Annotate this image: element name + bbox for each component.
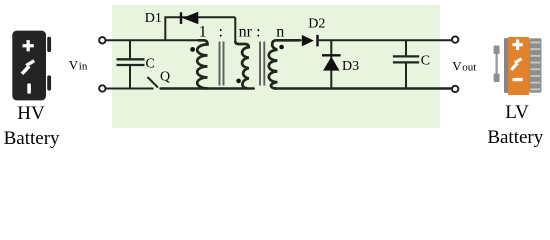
- HV battery terminal tab top: [47, 37, 51, 52]
- diode D1: [181, 12, 198, 24]
- transformer primary winding 1: [197, 40, 207, 88]
- LV battery body: [508, 37, 529, 95]
- svg-text:D2: D2: [308, 17, 325, 32]
- switch Q blade: [148, 77, 159, 88]
- svg-text:C: C: [146, 56, 155, 71]
- HV battery plus symbol: [23, 40, 34, 51]
- transformer core 2: [260, 42, 264, 86]
- svg-text:nr: nr: [239, 24, 253, 41]
- svg-text:D3: D3: [342, 59, 359, 74]
- LV battery lightning bolt: [511, 59, 521, 70]
- svg-text:Q: Q: [160, 69, 170, 84]
- wire bottom rail left: [106, 88, 154, 90]
- HV battery body: [12, 31, 46, 101]
- node Vout+ terminal: [452, 36, 458, 42]
- svg-text:n: n: [276, 24, 284, 41]
- transformer winding nr: [235, 41, 249, 88]
- wire D1 branch: [165, 17, 235, 40]
- LV battery vent stripes: [530, 42, 540, 91]
- nr phase dot: [236, 79, 241, 84]
- node Vout- terminal: [452, 86, 458, 92]
- LV battery vent strip: [529, 38, 542, 93]
- HV battery minus bar: [27, 83, 31, 93]
- HV battery terminal tab bottom: [47, 75, 51, 90]
- diode D2: [302, 35, 318, 47]
- svg-text:Battery: Battery: [4, 128, 60, 149]
- LV battery handle mount top: [494, 46, 500, 55]
- svg-text:HV: HV: [17, 103, 45, 124]
- wire D1 to nr winding: [234, 17, 236, 42]
- svg-text:Vout: Vout: [452, 59, 476, 74]
- capacitor C2: [393, 40, 419, 88]
- svg-text:D1: D1: [145, 11, 162, 26]
- LV battery side bar: [504, 38, 508, 93]
- svg-text:C: C: [421, 54, 430, 69]
- LV battery handle loop: [495, 50, 497, 78]
- LV battery handle mount bottom: [494, 74, 500, 83]
- transformer winding n: [269, 40, 300, 88]
- node Vin- terminal: [99, 85, 105, 91]
- diode D3: [322, 55, 341, 70]
- HV battery lightning bolt: [22, 61, 34, 74]
- svg-text::: :: [256, 24, 260, 41]
- wire D3 branch: [330, 40, 332, 88]
- node Vin+ terminal: [99, 37, 105, 43]
- svg-text:LV: LV: [505, 102, 529, 123]
- wire bottom rail right: [274, 87, 452, 89]
- svg-text::: :: [218, 24, 222, 41]
- primary phase dot: [190, 47, 195, 52]
- LV battery minus bar: [512, 78, 522, 81]
- svg-text:1: 1: [199, 24, 207, 41]
- converter block background: [112, 5, 440, 128]
- n phase dot: [279, 45, 284, 50]
- svg-text:Battery: Battery: [487, 127, 543, 148]
- transformer core 1: [220, 42, 224, 86]
- capacitor C1: [117, 40, 145, 88]
- wire top rail left: [106, 39, 204, 41]
- svg-text:Vin: Vin: [69, 58, 88, 73]
- LV battery plus symbol: [512, 40, 522, 50]
- wire top rail right: [276, 39, 452, 41]
